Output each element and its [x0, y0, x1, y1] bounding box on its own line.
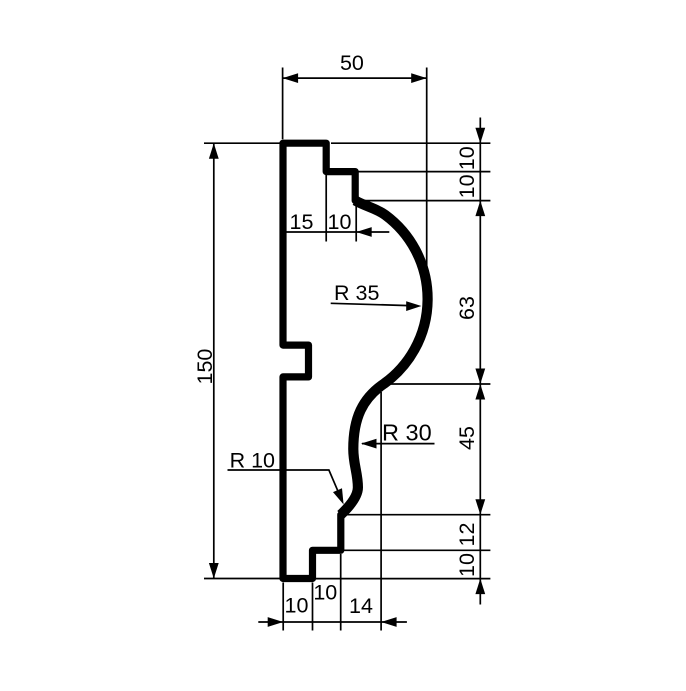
right chain arrowhead pointing up below transition line	[475, 384, 485, 400]
svg-text:R 30: R 30	[382, 419, 432, 445]
svg-text:10: 10	[285, 594, 309, 618]
dimension 15/10: extension line at x=25	[355, 203, 357, 242]
right chain extension line at R10 end (y=128)	[342, 514, 490, 516]
svg-text:10: 10	[455, 146, 479, 170]
svg-text:10: 10	[313, 581, 337, 605]
svg-text:R 35: R 35	[334, 281, 379, 305]
bottom chain right arrowhead pointing left	[381, 617, 397, 627]
radius R35: leader line	[331, 303, 409, 305]
right dimension chain: vertical dimension line	[479, 118, 481, 605]
dimension 50: right arrowhead	[411, 73, 427, 83]
dimension 15/10: extension line at x=15	[325, 175, 327, 242]
svg-text:14: 14	[349, 594, 373, 618]
radius R30: leader line	[362, 443, 435, 445]
radius R10: arrowhead	[333, 488, 344, 504]
radius R10: leader polyline	[228, 470, 338, 491]
svg-text:63: 63	[455, 296, 479, 320]
right chain arrowhead pointing down above transition line	[475, 369, 485, 385]
dimension 50: dimension line	[283, 77, 427, 79]
svg-text:50: 50	[340, 51, 364, 75]
dimension 50: right extension line	[426, 68, 428, 267]
right chain arrowhead pointing up below bottom line	[475, 579, 485, 595]
svg-text:10: 10	[455, 553, 479, 577]
svg-text:15: 15	[290, 210, 314, 234]
right chain extension line at R35/R30 transition (y=83)	[390, 383, 491, 385]
dimension 50: left arrowhead	[283, 73, 299, 83]
right chain arrowhead pointing down at top line	[475, 128, 485, 144]
right chain extension line at profile top (y=0)	[331, 142, 490, 144]
dimension 15/10: arrowhead pointing left	[356, 227, 372, 237]
dimension 150: bottom arrowhead	[209, 563, 219, 579]
right chain extension line at first step (y=10)	[357, 171, 490, 173]
dimension 50: left extension line	[282, 68, 284, 140]
bottom chain extension line at x=34	[380, 392, 382, 631]
dimension 150: top extension line	[204, 142, 280, 144]
radius R30: arrowhead	[361, 439, 377, 449]
right chain arrowhead pointing up below second step line	[475, 201, 485, 217]
bottom chain left arrowhead pointing right	[268, 617, 284, 627]
bottom chain extension line at x=0	[282, 583, 284, 631]
svg-text:150: 150	[193, 349, 217, 385]
svg-text:45: 45	[455, 426, 479, 450]
bottom chain dimension line	[258, 621, 407, 623]
right chain extension line at second step (y=20)	[360, 200, 491, 202]
dimension 150: bottom extension line	[204, 578, 280, 580]
bottom chain extension line at x=10	[312, 583, 314, 631]
dimension 15/10: dimension line	[283, 231, 389, 233]
svg-text:12: 12	[455, 523, 479, 547]
right chain extension line at lower step (y=140)	[343, 549, 490, 551]
dimension 150: top arrowhead	[209, 143, 219, 159]
bottom chain extension line at x=20	[340, 554, 342, 631]
molding profile curved front face R35/R30/R10 (heavier stroke)	[341, 201, 428, 515]
dimension 150: dimension line	[213, 143, 215, 578]
svg-text:10: 10	[328, 210, 352, 234]
right chain arrowhead pointing down above R10-end line	[475, 499, 485, 515]
svg-text:R 10: R 10	[230, 449, 275, 473]
right chain extension line at profile bottom (y=150)	[316, 578, 490, 580]
molding profile outline	[283, 143, 428, 578]
radius R35: arrowhead	[406, 301, 421, 311]
svg-text:10: 10	[455, 174, 479, 198]
